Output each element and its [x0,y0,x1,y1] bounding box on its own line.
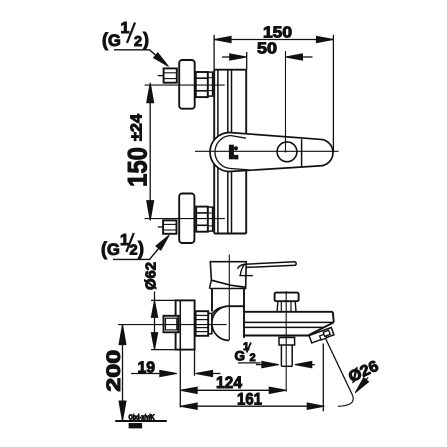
shower outlet stub [279,338,295,346]
flange right extension line [194,350,196,376]
bottom union washer [208,207,213,231]
lever pivot circle [277,142,297,162]
svg-text:161: 161 [237,390,262,409]
dimension Ø62 extension lines [151,299,176,301]
dimension 161 line [180,405,324,407]
lever centerline [195,150,339,152]
bottom union supply stub line [158,226,163,228]
top union washer [208,72,213,96]
bottom union back hex [196,207,208,232]
Ø26 leader arrow [359,378,368,389]
svg-text:2: 2 [134,34,142,50]
indicator dot [234,146,238,150]
spout outline [244,311,333,313]
floor reference line [115,420,167,422]
svg-text:±24: ±24 [129,114,146,141]
svg-text:Obd-x/y/K: Obd-x/y/K [129,415,155,422]
svg-text:): ) [138,239,144,259]
dimension 150±24 line [149,85,151,219]
lever inner chamfer line [215,136,249,170]
front lever cap [210,262,246,288]
dimension 124 line [180,389,286,391]
svg-text:G: G [107,241,120,259]
bottom escutcheon flange [179,194,194,244]
svg-text:150: 150 [263,25,292,42]
aerator nozzle [309,327,334,343]
svg-text:): ) [143,30,149,50]
svg-text:G: G [108,32,121,50]
svg-text:200: 200 [104,350,125,392]
leader line to bottom union nut [113,242,165,260]
body round end cap [212,306,229,340]
diverter axis line [285,291,287,392]
dimension 50 extension line [246,52,248,70]
dimension Ø62 line [154,292,156,350]
body wall plate [213,70,215,234]
spout outlet axis extension [322,344,324,412]
pivot marker bar [229,145,233,159]
body neck [210,288,247,290]
top union centerline [145,84,225,86]
lever cap joint line [301,139,303,166]
svg-text:2: 2 [250,352,256,364]
lever handle outline [210,133,333,172]
dimension 150 line [214,39,333,41]
bottom union hex nut [163,220,176,233]
front union nut [164,316,179,333]
front lever joint detail [240,264,245,275]
diverter knob [275,293,299,302]
top escutcheon flange [179,60,195,109]
dimension 150 extension lines [213,35,215,70]
svg-text:150: 150 [123,147,153,187]
front supply centerline [118,324,227,326]
front connect hex rings [196,311,209,336]
body top edge [229,305,244,307]
top union hex nut [164,68,177,82]
top union supply stub line [158,75,164,77]
dimension 50 line [222,56,234,58]
bottom union centerline [145,218,225,220]
svg-text:Ø62: Ø62 [144,262,160,290]
front washer [208,313,212,333]
svg-text:50: 50 [257,41,277,58]
front lever blade [238,262,297,269]
spout flow diagonal [326,339,353,395]
escutcheon edge-on square [176,300,195,349]
indicator square [234,155,238,159]
dimension 19 line [131,373,164,375]
svg-text:2: 2 [130,243,138,259]
wall plane extension line [179,350,181,408]
dimension 200 line [122,325,124,421]
svg-text:1: 1 [121,20,130,37]
body axis line [228,255,230,341]
leader line to top union nut [114,50,164,62]
dimension G1/2 arrows [256,364,266,366]
neck-body fillet [212,307,227,315]
top union back hex [196,72,208,97]
body block outline [214,69,246,71]
lever pivot axis line [285,51,287,153]
